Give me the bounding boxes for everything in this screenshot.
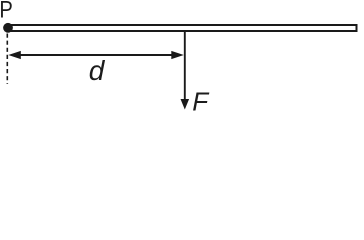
pivot dot P: [3, 23, 13, 33]
svg-text:P: P: [0, 0, 13, 23]
dimension line shaft: [14, 54, 178, 56]
force arrow F shaft: [184, 32, 186, 101]
svg-text:d: d: [89, 55, 106, 86]
dimension arrowhead right: [171, 51, 184, 59]
rod (horizontal bar): [8, 25, 357, 31]
dimension arrowhead left: [8, 51, 20, 59]
force arrowhead: [181, 99, 190, 110]
svg-text:F: F: [192, 87, 210, 112]
dashed reference line: [6, 34, 8, 85]
